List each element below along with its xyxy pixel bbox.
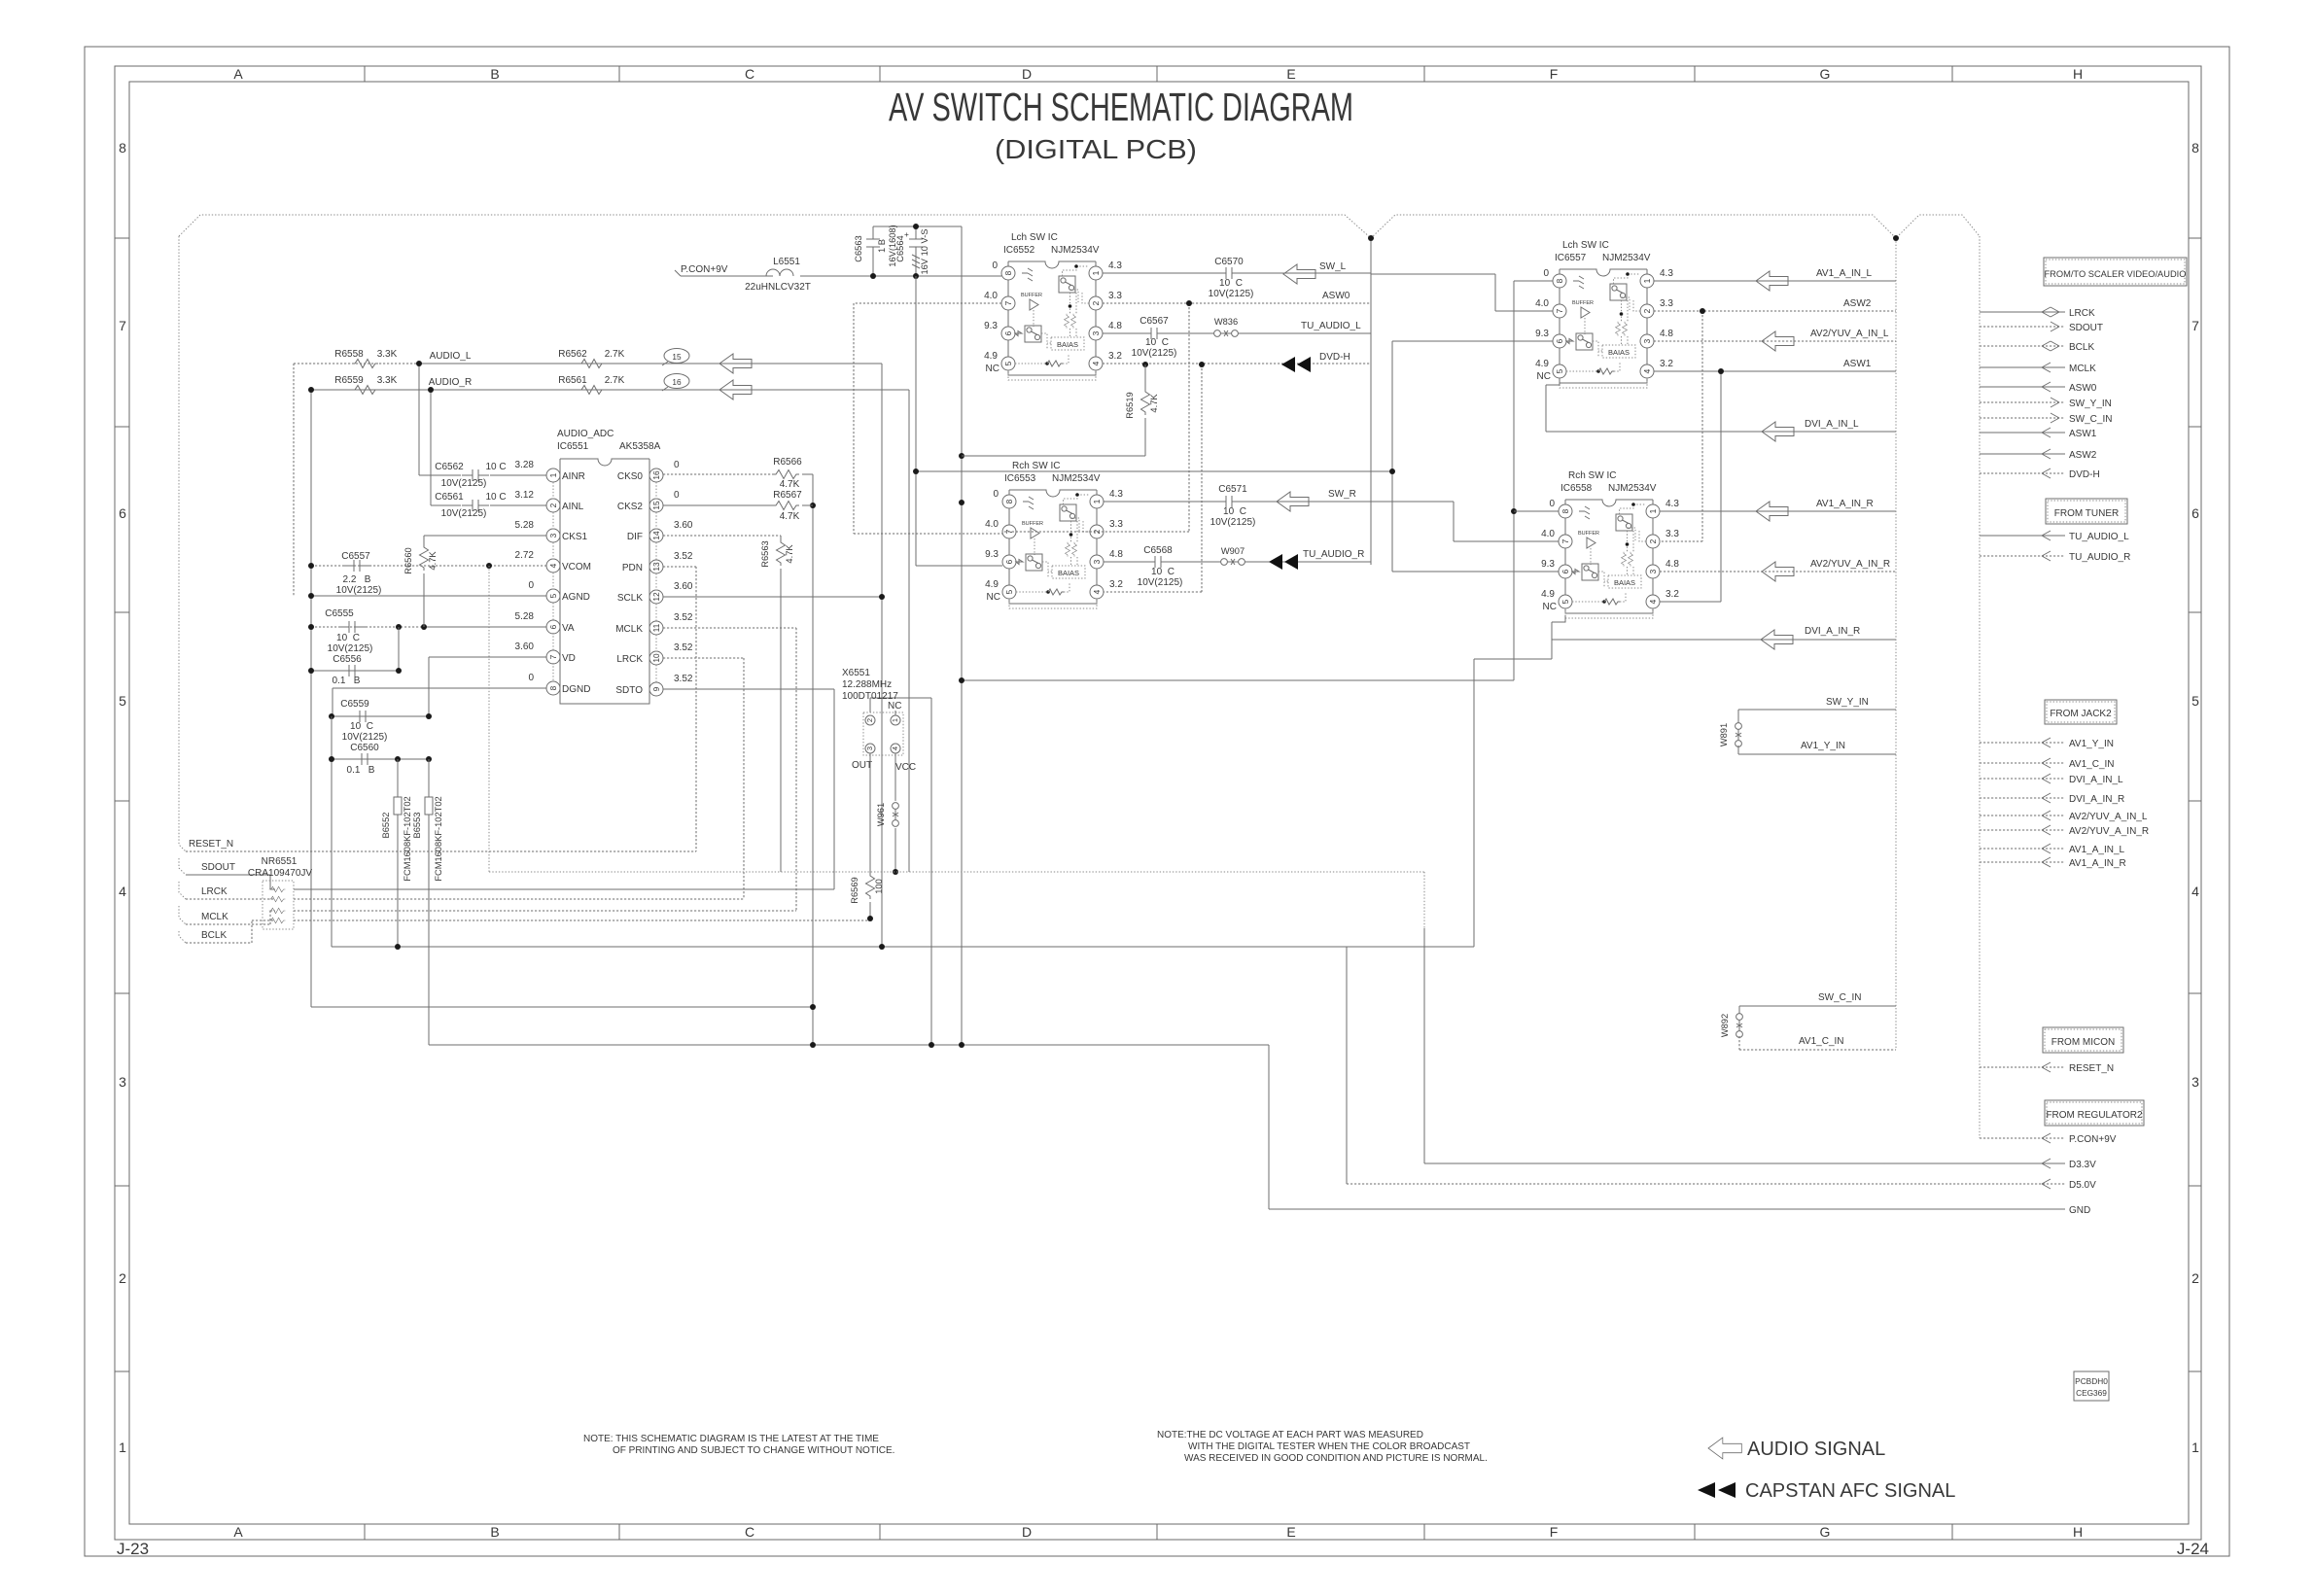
svg-text:AV1_Y_IN: AV1_Y_IN: [2069, 739, 2114, 749]
node RESET_N (edge stub): [1980, 1066, 2065, 1068]
svg-text:LRCK: LRCK: [2069, 308, 2095, 319]
node AV1_A_IN_R (edge stub): [1980, 861, 2065, 863]
wire GND net: [311, 226, 1514, 1209]
svg-text:NJM2534V: NJM2534V: [1051, 245, 1100, 256]
svg-text:TU_AUDIO_L: TU_AUDIO_L: [2069, 532, 2129, 542]
node AV1_A_IN_L (edge stub): [1980, 848, 2065, 850]
svg-text:3: 3: [119, 1074, 126, 1090]
svg-text:9: 9: [651, 686, 661, 691]
resistor R6519 4.7K: [962, 364, 1145, 456]
svg-text:AGND: AGND: [562, 592, 590, 603]
svg-text:12.288MHz: 12.288MHz: [842, 679, 892, 690]
svg-text:SDOUT: SDOUT: [201, 862, 235, 873]
wire DVI_A_IN_L net: [1546, 378, 1896, 432]
node SW_Y_IN (edge stub): [1980, 401, 2065, 403]
svg-text:C: C: [745, 66, 754, 82]
svg-text:CKS0: CKS0: [617, 471, 644, 482]
svg-text:A: A: [233, 66, 243, 82]
wire SDOUT: [186, 875, 834, 889]
svg-text:FROM REGULATOR2: FROM REGULATOR2: [2046, 1110, 2143, 1121]
svg-text:10 C: 10 C: [336, 633, 360, 643]
svg-text:MCLK: MCLK: [2069, 364, 2096, 374]
node PCBDH0 / CEG369 block: [2074, 1371, 2109, 1401]
svg-text:AV SWITCH SCHEMATIC DIAGRAM: AV SWITCH SCHEMATIC DIAGRAM: [889, 85, 1353, 129]
svg-text:AV1_A_IN_L: AV1_A_IN_L: [2069, 845, 2125, 855]
svg-text:3: 3: [865, 746, 874, 750]
svg-text:VCOM: VCOM: [562, 562, 591, 572]
svg-text:AV1_C_IN: AV1_C_IN: [2069, 759, 2115, 770]
svg-text:AUDIO_R: AUDIO_R: [429, 377, 472, 388]
jumper W891: [1735, 723, 1742, 747]
wire SW_C_IN net: [1739, 1006, 1896, 1015]
node SW_C_IN (edge stub): [1980, 417, 2065, 419]
svg-text:4.7K: 4.7K: [785, 544, 794, 564]
capacitor C6562: [462, 469, 489, 481]
capacitor C6570: [1215, 267, 1243, 279]
svg-text:8: 8: [548, 685, 558, 690]
node AV2/YUV_A_IN_L (edge stub): [1980, 815, 2065, 816]
node D5.0V rail stub: [1347, 1183, 2065, 1185]
svg-text:P.CON+9V: P.CON+9V: [681, 264, 728, 275]
node P.CON+9V (edge stub): [1980, 1137, 2065, 1139]
svg-text:10 C: 10 C: [485, 462, 506, 472]
svg-text:NOTE:THE DC VOLTAGE AT EACH PA: NOTE:THE DC VOLTAGE AT EACH PART WAS MEA…: [1157, 1430, 1423, 1440]
svg-text:AINL: AINL: [562, 502, 584, 512]
svg-text:10V(2125): 10V(2125): [1132, 348, 1177, 359]
svg-text:0.1 B: 0.1 B: [347, 765, 375, 776]
wire AV1_A_IN_R net: [1660, 510, 1896, 512]
svg-text:10 C: 10 C: [1223, 506, 1246, 517]
svg-text:R6562: R6562: [558, 349, 587, 360]
svg-text:3.60: 3.60: [674, 581, 693, 592]
node capstan arrow DVD-H: [1281, 357, 1311, 372]
node FROM/TO SCALER VIDEO/AUDIO header: [2044, 258, 2187, 286]
svg-text:3.52: 3.52: [674, 612, 693, 623]
svg-text:R6566: R6566: [773, 457, 802, 468]
svg-text:IC6551: IC6551: [557, 441, 589, 452]
svg-text:5.28: 5.28: [515, 611, 535, 622]
wire BCLK: [186, 920, 870, 943]
capacitor C6568: [1144, 556, 1172, 568]
wire AV2/YUV_A_IN_L net: [1654, 340, 1896, 342]
svg-text:4: 4: [119, 884, 126, 899]
svg-text:10V(2125): 10V(2125): [328, 643, 373, 654]
svg-text:AV1_C_IN: AV1_C_IN: [1799, 1036, 1844, 1047]
svg-text:D3.3V: D3.3V: [2069, 1160, 2096, 1170]
svg-text:3.52: 3.52: [674, 674, 693, 684]
inductor L6551: [766, 269, 793, 276]
svg-text:R6561: R6561: [558, 375, 587, 386]
wire SW_Y_IN net: [1738, 710, 1896, 724]
svg-text:W892: W892: [1720, 1014, 1730, 1037]
svg-text:J-24: J-24: [2177, 1540, 2209, 1558]
svg-text:H: H: [2073, 1524, 2083, 1540]
svg-text:SW_R: SW_R: [1328, 489, 1356, 500]
svg-text:W907: W907: [1221, 546, 1245, 556]
node audio arrow SW_L: [1283, 264, 1315, 284]
svg-text:ASW2: ASW2: [1843, 298, 1872, 309]
node AV1_C_IN (edge stub): [1980, 762, 2065, 764]
svg-text:C6556: C6556: [333, 654, 362, 665]
svg-text:ASW1: ASW1: [1843, 359, 1872, 369]
node GND rail stub: [1269, 1208, 2065, 1210]
wire VA line: [311, 626, 424, 628]
wire AGND line: [311, 595, 546, 597]
wire ASW1 net: [1654, 371, 1896, 602]
svg-text:4.7K: 4.7K: [780, 511, 800, 522]
ferrite bead B6552: [397, 759, 399, 947]
svg-text:SW_Y_IN: SW_Y_IN: [2069, 399, 2112, 409]
svg-text:FCM1608KF-102T02: FCM1608KF-102T02: [403, 796, 412, 881]
svg-text:G: G: [1820, 66, 1831, 82]
svg-text:2.7K: 2.7K: [605, 349, 625, 360]
crystal X6551 12.288MHz: [863, 712, 903, 755]
svg-text:C6564: C6564: [895, 235, 905, 261]
node LRCK (edge stub): [1980, 311, 2065, 313]
wire crystal OUT: [869, 753, 871, 919]
svg-text:10 C: 10 C: [350, 721, 373, 732]
svg-text:CRA109470JV: CRA109470JV: [248, 868, 312, 879]
svg-text:AV2/YUV_A_IN_L: AV2/YUV_A_IN_L: [2069, 812, 2148, 822]
wire AV1_A_IN_L net: [1654, 280, 1896, 282]
svg-text:ASW1: ASW1: [2069, 429, 2097, 439]
node AV2/YUV_A_IN_R (edge stub): [1980, 829, 2065, 831]
svg-text:DVD-H: DVD-H: [1319, 352, 1350, 363]
svg-text:10 C: 10 C: [1151, 567, 1175, 577]
svg-text:C6561: C6561: [435, 492, 464, 503]
svg-text:1: 1: [119, 1440, 126, 1455]
wire IC6557 pin8 gnd link: [1514, 280, 1553, 282]
svg-text:C6557: C6557: [341, 551, 370, 562]
svg-text:R6519: R6519: [1125, 392, 1135, 418]
svg-text:SW_L: SW_L: [1319, 261, 1347, 272]
svg-text:2: 2: [2191, 1270, 2199, 1286]
svg-text:3: 3: [548, 533, 558, 538]
wire MCLK net: [663, 628, 796, 911]
svg-text:C6560: C6560: [350, 743, 379, 753]
capacitor C6564 (electrolytic): [909, 226, 923, 276]
svg-text:4: 4: [548, 563, 558, 568]
node D3.3V rail stub: [1424, 1162, 2065, 1164]
jumper W892: [1736, 1014, 1743, 1038]
svg-text:Lch SW IC: Lch SW IC: [1011, 232, 1058, 243]
node FROM JACK2 header: [2045, 700, 2117, 724]
svg-text:G: G: [1820, 1524, 1831, 1540]
svg-text:DVD-H: DVD-H: [2069, 469, 2100, 480]
node TU_AUDIO_L (edge stub): [1980, 535, 2065, 537]
wire VCOM decouple drop: [488, 566, 490, 872]
wire IC6558 pin8 gnd link: [1514, 510, 1559, 512]
svg-text:0: 0: [674, 460, 680, 470]
svg-text:DIF: DIF: [627, 532, 643, 542]
node FROM MICON header: [2043, 1027, 2123, 1053]
resistor R6563: [777, 539, 786, 566]
svg-text:AUDIO SIGNAL: AUDIO SIGNAL: [1747, 1439, 1885, 1460]
wire RESET_N: [186, 850, 696, 852]
svg-text:C6559: C6559: [340, 699, 369, 710]
resistor R6569 100: [866, 873, 875, 899]
svg-text:5: 5: [548, 593, 558, 598]
node DVD-H (edge stub): [1980, 472, 2065, 474]
svg-text:8: 8: [119, 140, 126, 156]
svg-text:D: D: [1022, 1524, 1032, 1540]
svg-text:OUT: OUT: [852, 760, 872, 771]
wire ASW0 net: [1002, 303, 1371, 532]
svg-text:C6568: C6568: [1143, 545, 1173, 556]
node audio arrow AUDIO_L: [719, 354, 752, 373]
svg-text:4: 4: [891, 746, 899, 750]
capacitor C6567: [1140, 328, 1168, 339]
svg-text:TU_AUDIO_R: TU_AUDIO_R: [2069, 552, 2130, 563]
svg-text:3.12: 3.12: [515, 490, 535, 501]
svg-text:DGND: DGND: [562, 684, 590, 695]
svg-text:10 C: 10 C: [1219, 278, 1243, 289]
wire VCOM line: [311, 565, 546, 567]
svg-text:R6569: R6569: [850, 877, 859, 903]
jumper W907: [1221, 559, 1245, 566]
svg-text:15: 15: [651, 501, 661, 510]
svg-text:AV2/YUV_A_IN_R: AV2/YUV_A_IN_R: [1810, 559, 1890, 570]
wire AV1_Y_IN net: [1738, 746, 1896, 754]
svg-text:DVI_A_IN_R: DVI_A_IN_R: [2069, 794, 2124, 805]
svg-text:3.60: 3.60: [515, 642, 535, 652]
svg-text:Lch SW IC: Lch SW IC: [1562, 240, 1609, 251]
svg-text:8: 8: [2191, 140, 2199, 156]
svg-text:10V(2125): 10V(2125): [1209, 289, 1254, 299]
svg-text:LRCK: LRCK: [201, 886, 228, 897]
capacitor C6571: [1215, 496, 1243, 507]
svg-text:PCBDH0: PCBDH0: [2075, 1376, 2108, 1386]
svg-text:NJM2534V: NJM2534V: [1052, 473, 1101, 484]
wire PDN net: [663, 567, 696, 851]
resistor R6567: [773, 502, 799, 510]
svg-text:R6560: R6560: [403, 547, 413, 573]
svg-text:W836: W836: [1214, 317, 1238, 327]
capacitor C6560: [332, 716, 429, 947]
svg-text:LRCK: LRCK: [616, 654, 643, 665]
node ASW0 (edge stub): [1980, 386, 2065, 388]
wire DGND line: [333, 688, 546, 716]
svg-text:W961: W961: [876, 803, 886, 826]
svg-text:FROM MICON: FROM MICON: [2051, 1037, 2116, 1048]
svg-text:VCC: VCC: [895, 762, 916, 773]
node pin-15 oval: [664, 349, 689, 364]
resistor R6561: [578, 386, 605, 395]
resistor R6559: [352, 386, 378, 395]
op-amp U IC6553 R SW IC NJM2534V: [985, 489, 1123, 608]
svg-text:TU_AUDIO_L: TU_AUDIO_L: [1301, 321, 1361, 331]
svg-text:F: F: [1550, 1524, 1559, 1540]
svg-text:IC6552: IC6552: [1003, 245, 1035, 256]
jumper W961: [894, 753, 896, 872]
svg-text:2.72: 2.72: [515, 550, 535, 561]
svg-text:2: 2: [119, 1270, 126, 1286]
svg-text:J-23: J-23: [117, 1540, 149, 1558]
svg-text:R6559: R6559: [334, 375, 364, 386]
svg-text:5: 5: [119, 693, 126, 709]
wire CKS0 net: [663, 473, 773, 475]
resistor R6560: [424, 536, 546, 627]
svg-text:10V(2125): 10V(2125): [1138, 577, 1183, 588]
svg-text:R6563: R6563: [760, 540, 770, 567]
svg-text:14: 14: [651, 531, 661, 540]
op-amp U IC6552 L SW IC NJM2534V: [984, 260, 1122, 380]
svg-text:PDN: PDN: [622, 563, 643, 573]
svg-text:NJM2534V: NJM2534V: [1608, 483, 1657, 494]
svg-text:R6567: R6567: [773, 490, 802, 501]
wire CKS2 net: [663, 504, 813, 506]
svg-text:15: 15: [672, 352, 682, 362]
svg-text:WITH THE DIGITAL TESTER WHEN T: WITH THE DIGITAL TESTER WHEN THE COLOR B…: [1188, 1441, 1470, 1452]
svg-text:7: 7: [548, 654, 558, 659]
svg-text:B6552: B6552: [381, 813, 391, 839]
svg-text:BCLK: BCLK: [2069, 342, 2094, 353]
node DVI_A_IN_L (edge stub): [1980, 778, 2065, 780]
wire P.CON+9V rail: [675, 226, 1001, 276]
svg-text:AV2/YUV_A_IN_R: AV2/YUV_A_IN_R: [2069, 826, 2149, 837]
svg-text:DVI_A_IN_L: DVI_A_IN_L: [2069, 775, 2123, 785]
wire AV1_C_IN net: [1739, 1036, 1896, 1050]
svg-text:16: 16: [672, 377, 682, 387]
svg-text:RESET_N: RESET_N: [2069, 1063, 2114, 1074]
svg-text:3.3K: 3.3K: [377, 349, 398, 360]
capacitor C6555: [338, 621, 366, 633]
resistor R6562: [578, 360, 605, 368]
svg-text:ASW0: ASW0: [1322, 291, 1350, 301]
node ASW1 (edge stub): [1980, 432, 2065, 434]
svg-text:6: 6: [119, 505, 126, 521]
svg-text:6: 6: [548, 624, 558, 629]
wire TU_AUDIO_R net: [1104, 561, 1371, 563]
wire D3.3V rail: [489, 872, 1424, 928]
svg-text:ASW0: ASW0: [2069, 383, 2097, 394]
svg-text:R6558: R6558: [334, 349, 364, 360]
svg-text:C6567: C6567: [1139, 316, 1169, 327]
svg-text:4: 4: [2191, 884, 2199, 899]
wire SDTO net: [663, 689, 834, 889]
node FROM REGULATOR2 header: [2045, 1100, 2144, 1126]
node capstan arrow TU_AUDIO_R: [1269, 554, 1298, 570]
svg-text:0: 0: [674, 490, 680, 501]
svg-text:7: 7: [2191, 318, 2199, 333]
svg-text:10V(2125): 10V(2125): [342, 732, 388, 743]
svg-text:MCLK: MCLK: [201, 912, 228, 922]
svg-text:IC6557: IC6557: [1555, 253, 1587, 263]
svg-text:MCLK: MCLK: [615, 624, 643, 635]
svg-text:FROM TUNER: FROM TUNER: [2054, 508, 2119, 519]
svg-text:2: 2: [865, 718, 874, 722]
wire AV2/YUV_A_IN_R net: [1660, 571, 1896, 572]
wire D5.0V rail: [332, 640, 1552, 1184]
svg-text:DVI_A_IN_R: DVI_A_IN_R: [1805, 626, 1860, 637]
svg-text:1 B: 1 B: [877, 239, 887, 253]
svg-text:3: 3: [2191, 1074, 2199, 1090]
svg-text:C: C: [745, 1524, 754, 1540]
svg-text:C6563: C6563: [854, 235, 863, 261]
svg-text:SDOUT: SDOUT: [2069, 323, 2103, 333]
node FROM TUNER header: [2046, 499, 2127, 524]
node BCLK (edge stub): [1980, 345, 2065, 347]
svg-text:5.28: 5.28: [515, 520, 535, 531]
svg-text:CAPSTAN AFC SIGNAL: CAPSTAN AFC SIGNAL: [1745, 1480, 1955, 1502]
svg-text:C6562: C6562: [435, 462, 464, 472]
svg-text:C6571: C6571: [1218, 484, 1247, 495]
svg-text:AINR: AINR: [562, 471, 585, 482]
node PCB boundary (dashed board outline): [179, 215, 1980, 238]
wire LRCK net: [663, 658, 744, 899]
wire LRCK: [186, 898, 744, 900]
ferrite bead B6553: [428, 759, 430, 1045]
svg-text:A: A: [233, 1524, 243, 1540]
svg-text:3.52: 3.52: [674, 642, 693, 653]
wire AUDIO_L: [294, 364, 419, 596]
node pin-16 oval: [664, 374, 689, 389]
svg-text:OF PRINTING AND SUBJECT TO CHA: OF PRINTING AND SUBJECT TO CHANGE WITHOU…: [613, 1445, 894, 1456]
svg-text:C6555: C6555: [325, 608, 354, 619]
svg-text:10: 10: [651, 653, 661, 663]
node audio arrow SW_R: [1277, 492, 1309, 511]
svg-text:11: 11: [651, 623, 661, 632]
node TU_AUDIO_R (edge stub): [1980, 555, 2065, 557]
svg-text:3.60: 3.60: [674, 520, 693, 531]
svg-text:SW_Y_IN: SW_Y_IN: [1826, 697, 1869, 708]
capacitor C6556: [311, 627, 399, 671]
node MCLK (edge stub): [1980, 366, 2065, 368]
svg-text:CKS2: CKS2: [617, 502, 644, 512]
svg-text:VA: VA: [562, 623, 575, 634]
svg-text:10V(2125): 10V(2125): [441, 478, 487, 489]
svg-text:0: 0: [528, 673, 534, 683]
svg-text:CKS1: CKS1: [562, 532, 588, 542]
svg-text:AV1_A_IN_R: AV1_A_IN_R: [2069, 858, 2126, 869]
wire SW_R net: [1104, 502, 1559, 541]
svg-text:1: 1: [548, 472, 558, 477]
svg-text:2: 2: [548, 503, 558, 507]
svg-text:ASW2: ASW2: [2069, 450, 2097, 461]
capacitor C6561: [462, 500, 489, 511]
node SDOUT (edge stub): [1980, 326, 2065, 328]
wire AUDIO_R: [311, 390, 909, 1007]
svg-text:16V 10 V-S: 16V 10 V-S: [920, 228, 929, 274]
op-amp U IC6551 AK5358A audio ADC: [546, 459, 663, 704]
svg-text:VD: VD: [562, 653, 576, 664]
svg-text:SDTO: SDTO: [615, 685, 643, 696]
svg-text:GND: GND: [2069, 1205, 2090, 1216]
svg-text:AV2/YUV_A_IN_L: AV2/YUV_A_IN_L: [1810, 329, 1889, 339]
svg-text:SW_C_IN: SW_C_IN: [2069, 414, 2112, 425]
svg-text:B: B: [490, 66, 499, 82]
resistor R6558: [352, 360, 378, 368]
capacitor C6557: [343, 560, 370, 572]
node legend AUDIO SIGNAL: [1708, 1438, 1741, 1459]
svg-text:W891: W891: [1719, 723, 1729, 746]
svg-text:10V(2125): 10V(2125): [336, 585, 382, 596]
svg-text:3.52: 3.52: [674, 551, 693, 562]
svg-text:DVI_A_IN_L: DVI_A_IN_L: [1805, 419, 1859, 430]
op-amp U IC6557 L SW IC NJM2534V: [1535, 268, 1673, 388]
resistor NR6551 network CRA109470JV: [263, 881, 294, 929]
svg-text:B6553: B6553: [412, 813, 422, 839]
wire 9.3V bias line: [916, 276, 1559, 572]
wire VD line: [429, 657, 546, 716]
svg-text:X6551: X6551: [842, 668, 870, 678]
jumper W836: [1214, 330, 1239, 337]
wire SW_L net: [1103, 273, 1553, 311]
svg-text:NC: NC: [888, 701, 901, 711]
svg-text:3.28: 3.28: [515, 460, 535, 470]
svg-text:BCLK: BCLK: [201, 930, 227, 941]
node AV1_Y_IN (edge stub): [1980, 742, 2065, 744]
